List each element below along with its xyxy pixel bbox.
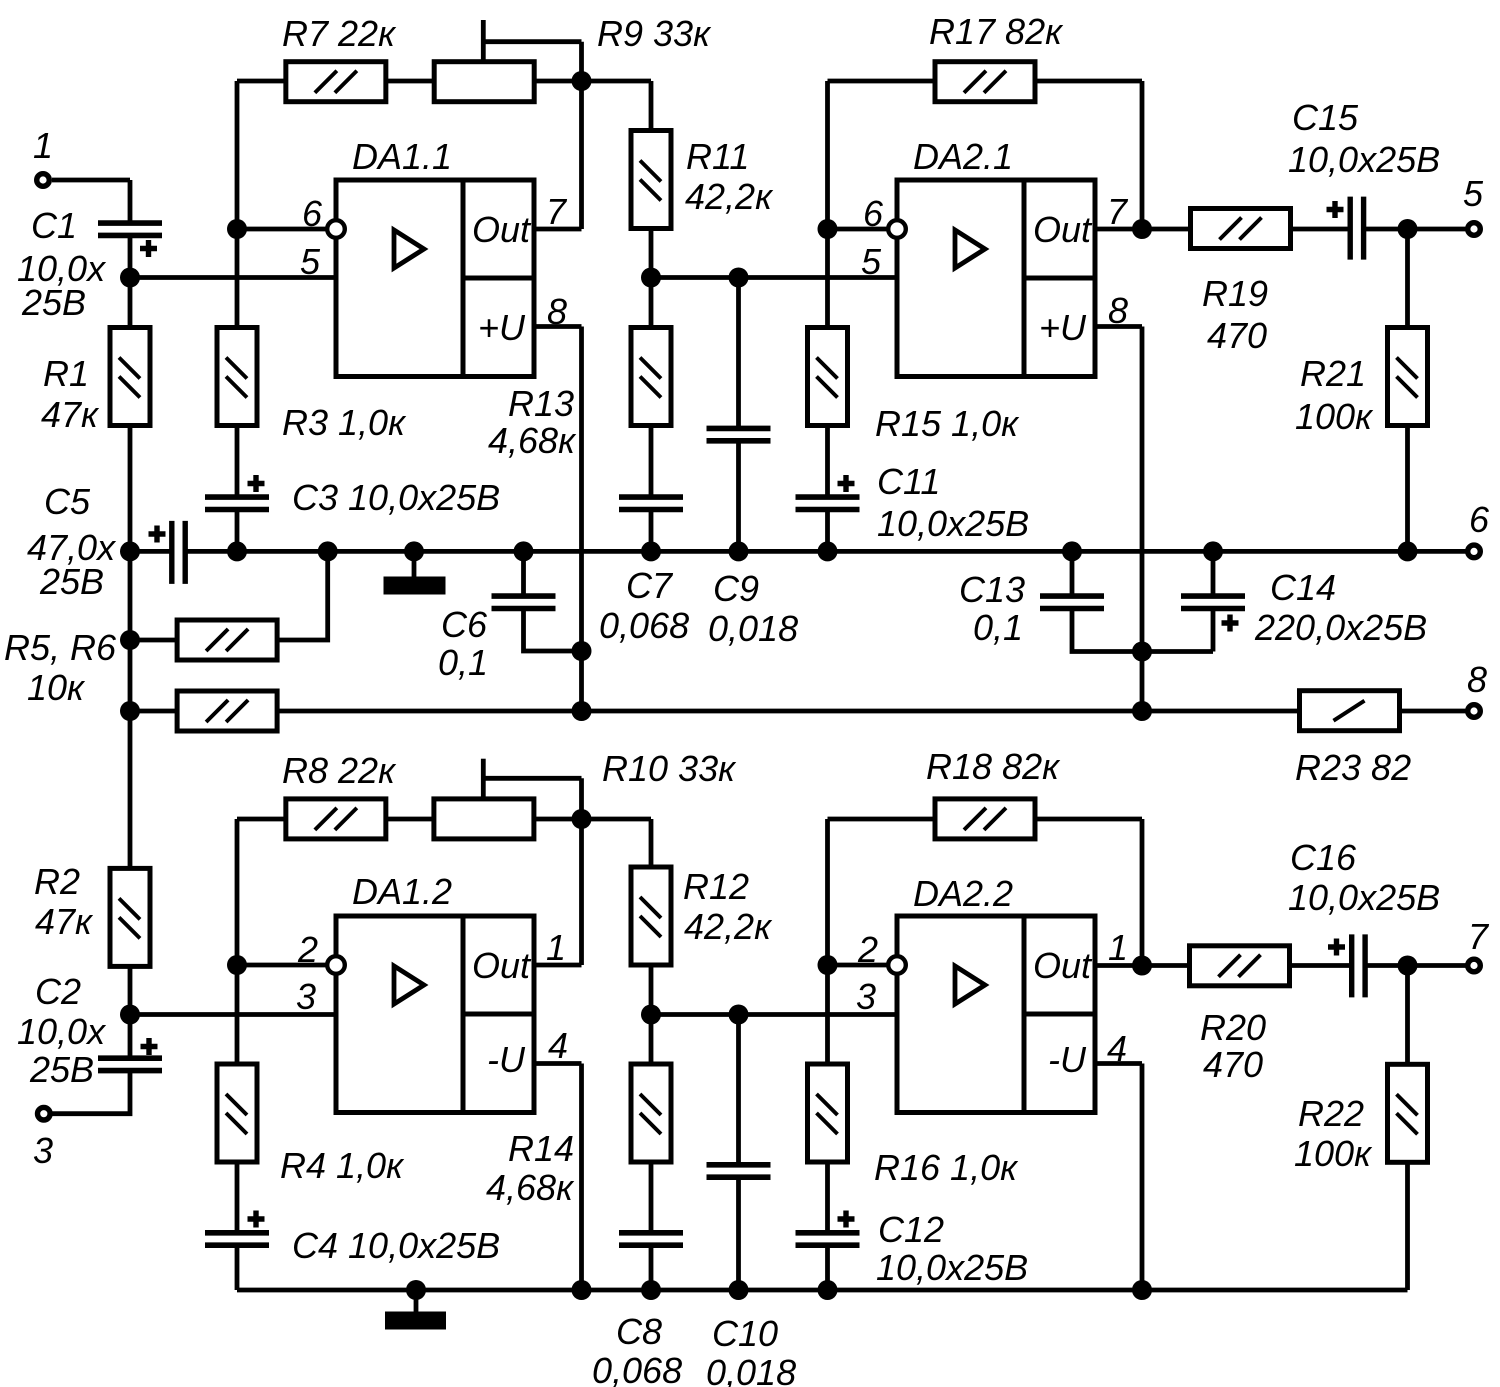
wire pin6 row DA2.1 (828, 227, 892, 232)
svg-text:C13: C13 (959, 569, 1025, 610)
resistor R15 (808, 328, 848, 426)
svg-text:C3 10,0x25В: C3 10,0x25В (292, 477, 500, 518)
op-amp DA1.2 pin2 inverting circle (327, 956, 345, 974)
svg-text:0,018: 0,018 (708, 608, 798, 649)
capacitor C1 (98, 223, 162, 235)
terminal 6 (1468, 545, 1481, 558)
op-amp DA1.1 pin6 inverting circle (327, 220, 345, 238)
svg-text:2: 2 (857, 929, 878, 970)
wire C14 top lead (1211, 551, 1216, 596)
svg-text:R22: R22 (1298, 1093, 1364, 1134)
capacitor C15 (1350, 197, 1363, 260)
svg-text:5: 5 (861, 241, 882, 282)
resistor R13 (631, 328, 671, 426)
node junction +U DA2.1 supply row (1132, 701, 1152, 721)
wire C2 bottom to terminal3 (52, 1070, 130, 1113)
wire +U column DA2.1 down to supply row (1140, 327, 1145, 712)
wire R17 left lead (828, 79, 935, 84)
wire R9 wiper stub (481, 20, 486, 62)
svg-text:470: 470 (1207, 315, 1267, 356)
wire R8 left lead (237, 817, 285, 822)
node junction R8/pin2 (227, 955, 247, 975)
node junction C13 bus (1062, 541, 1082, 561)
svg-text:42,2к: 42,2к (685, 176, 774, 217)
node junction C1/pin5 row (120, 268, 140, 288)
svg-text:3: 3 (296, 976, 316, 1017)
resistor R12 (631, 867, 671, 965)
wire pin3 row DA1.2 (130, 1012, 336, 1017)
op-amp DA2.1 (897, 180, 1095, 377)
resistor R3 (217, 328, 257, 426)
wire R7 left lead (237, 79, 285, 84)
op-amp DA1.1 (336, 180, 534, 377)
wire C8 bottom lead (649, 1245, 654, 1290)
node junction R18/pin2 DA2.2 (818, 955, 838, 975)
svg-text:220,0x25В: 220,0x25В (1254, 607, 1427, 648)
node junction R5 bus (318, 541, 338, 561)
resistor R23 (1300, 691, 1400, 731)
wire C9 bottom lead (736, 441, 741, 552)
wire pin4 lead DA1.2 (534, 1061, 582, 1066)
wire pin7 lead DA2.1 (1095, 227, 1190, 232)
node junction C6 bus (514, 541, 534, 561)
svg-text:DA1.2: DA1.2 (352, 871, 452, 912)
svg-text:C7: C7 (626, 565, 674, 606)
capacitor C11 plus (838, 475, 855, 492)
wire C11 bottom lead (825, 509, 830, 551)
svg-text:7: 7 (546, 191, 568, 232)
wire C10 bottom lead (736, 1177, 741, 1290)
wire pin8 lead DA1.1 (534, 324, 582, 329)
wire bottom ground bus (237, 1288, 1408, 1293)
wire pin5 row DA2.1 (651, 275, 897, 280)
svg-text:0,068: 0,068 (592, 1350, 682, 1387)
resistor R8 (286, 799, 386, 839)
svg-text:R15 1,0к: R15 1,0к (875, 403, 1020, 444)
capacitor C3 plus (248, 475, 265, 492)
svg-text:R17 82к: R17 82к (929, 11, 1064, 52)
node junction R9 output (572, 71, 592, 91)
svg-text:+U: +U (478, 307, 526, 348)
wire R5 left lead (130, 638, 176, 643)
svg-text:4,68к: 4,68к (488, 420, 577, 461)
op-amp DA2.2 (897, 916, 1095, 1113)
svg-text:R13: R13 (508, 383, 574, 424)
node junction C3 bus (227, 541, 247, 561)
capacitor C14 plus (1222, 615, 1239, 632)
wire R11-R13-C7 column (649, 230, 654, 498)
svg-text:R23 82: R23 82 (1295, 747, 1411, 788)
node junction R17/pin6 DA2.1 (818, 219, 838, 239)
capacitor C16 (1352, 934, 1365, 997)
resistor R22 (1388, 1064, 1428, 1162)
svg-text:C8: C8 (616, 1311, 662, 1352)
svg-text:R5, R6: R5, R6 (4, 627, 117, 668)
svg-text:47к: 47к (35, 901, 94, 942)
capacitor C6 (492, 596, 556, 608)
node junction +U DA1.1 supply row (572, 701, 592, 721)
svg-text:25В: 25В (21, 282, 86, 323)
capacitor C7 (619, 497, 683, 509)
svg-text:R3 1,0к: R3 1,0к (282, 402, 407, 443)
svg-text:0,1: 0,1 (438, 642, 488, 683)
svg-text:47к: 47к (41, 394, 100, 435)
wire supply row8 left (130, 709, 176, 714)
wire +U column DA1.1 down to supply row (579, 327, 584, 712)
ground bottom bar (385, 1312, 446, 1330)
svg-text:R18 82к: R18 82к (926, 746, 1061, 787)
capacitor C5 (172, 521, 185, 584)
svg-text:R7 22к: R7 22к (282, 13, 397, 54)
wire C13 top lead (1070, 551, 1075, 596)
capacitor C9 (707, 428, 771, 440)
node junction C10 pin3 row (729, 1005, 749, 1025)
wire bottom ground stub (414, 1290, 419, 1313)
svg-text:C12: C12 (878, 1209, 944, 1250)
resistor R20 (1190, 946, 1290, 986)
svg-text:C1: C1 (31, 205, 77, 246)
wire R5 right lead up to bus (278, 551, 328, 640)
wire C15 to terminal5 (1364, 227, 1466, 232)
resistor R5 (177, 620, 277, 660)
svg-text:R2: R2 (34, 861, 80, 902)
svg-text:10,0x25В: 10,0x25В (1288, 139, 1440, 180)
wire R20 to C16 (1291, 963, 1352, 968)
svg-text:7: 7 (1107, 191, 1129, 232)
svg-text:5: 5 (300, 241, 321, 282)
svg-text:DA1.1: DA1.1 (352, 136, 452, 177)
svg-text:R14: R14 (508, 1128, 574, 1169)
svg-text:470: 470 (1203, 1044, 1263, 1085)
node junction C8 bus (641, 1280, 661, 1300)
resistor R9 trimmer body (434, 62, 534, 102)
node junction C10 bus (729, 1280, 749, 1300)
svg-text:8: 8 (547, 291, 567, 332)
svg-text:Out: Out (1033, 945, 1093, 986)
node junction C14 bus (1203, 541, 1223, 561)
wire pin6 column DA2.1 with R15 C11 (825, 81, 830, 497)
wire R8-R10 link (387, 817, 433, 822)
svg-text:10,0x25В: 10,0x25В (876, 1247, 1028, 1288)
capacitor C11 (796, 497, 860, 509)
capacitor C16 plus (1328, 939, 1345, 956)
capacitor C12 (796, 1233, 860, 1245)
op-amp DA1.2 (336, 916, 534, 1113)
wire C10 top lead (736, 1015, 741, 1166)
wire C1 top lead (128, 180, 133, 223)
resistor R10 trimmer body (434, 799, 534, 839)
node junction C15/R21/terminal5 (1398, 219, 1418, 239)
node junction R5 left column (120, 630, 140, 650)
terminal 8 (1468, 705, 1481, 718)
svg-text:R10 33к: R10 33к (602, 748, 737, 789)
node junction C11 bus (818, 541, 838, 561)
node junction C2/pin3 row (120, 1005, 140, 1025)
svg-text:10,0x: 10,0x (17, 1011, 107, 1052)
wire R17 down to pin7 node (1140, 81, 1145, 229)
capacitor C12 plus (838, 1211, 855, 1228)
node junction R21 bus terminal6 (1398, 541, 1418, 561)
node junction C6 +U column (572, 641, 592, 661)
wire pin5 row DA1.1 (130, 275, 336, 280)
node junction R12/R14 pin3 (641, 1005, 661, 1025)
svg-text:DA2.1: DA2.1 (913, 136, 1013, 177)
svg-text:25В: 25В (29, 1049, 94, 1090)
wire pin7 lead DA1.1 (534, 227, 582, 232)
node junction R7/pin6 (227, 219, 247, 239)
wire R12-R14-C8 column (649, 966, 654, 1233)
node junction bottom ground stub (406, 1280, 426, 1300)
svg-text:4: 4 (548, 1025, 568, 1066)
svg-text:42,2к: 42,2к (684, 906, 773, 947)
wire pin6 row DA1.1 (237, 227, 330, 232)
svg-text:R4 1,0к: R4 1,0к (280, 1145, 405, 1186)
svg-text:1: 1 (33, 125, 53, 166)
capacitor C10 (707, 1165, 771, 1177)
wire R21 top column (1405, 229, 1410, 551)
svg-text:-U: -U (1048, 1039, 1087, 1080)
svg-text:C15: C15 (1292, 97, 1359, 138)
wire pin2 row DA1.2 (237, 963, 330, 968)
svg-text:+U: +U (1039, 307, 1087, 348)
svg-text:R8 22к: R8 22к (282, 750, 397, 791)
svg-text:C5: C5 (44, 481, 91, 522)
capacitor C2 plus (141, 1038, 158, 1055)
node junction C9 pin5 row (729, 268, 749, 288)
svg-text:R1: R1 (43, 353, 89, 394)
svg-text:R16 1,0к: R16 1,0к (874, 1147, 1019, 1188)
wire R18 right lead (1036, 817, 1142, 822)
wire pin2 row DA2.2 (828, 963, 892, 968)
resistor R4 (217, 1064, 257, 1162)
svg-text:0,1: 0,1 (973, 607, 1023, 648)
svg-text:5: 5 (1463, 173, 1484, 214)
wire R10 wiper stub (481, 759, 486, 799)
resistor R18 (935, 799, 1035, 839)
op-amp DA2.2 pin2 inverting circle (888, 956, 906, 974)
node junction C9 bus (729, 541, 749, 561)
wire R22 column to bottom bus (1405, 966, 1410, 1291)
svg-text:10,0x25В: 10,0x25В (877, 503, 1029, 544)
svg-text:6: 6 (863, 193, 884, 234)
wire C16 to terminal7 (1365, 963, 1466, 968)
svg-text:4: 4 (1107, 1028, 1127, 1069)
svg-text:25В: 25В (39, 561, 104, 602)
svg-text:10к: 10к (27, 667, 86, 708)
wire R10 wiper arm (483, 776, 581, 781)
wire R10 wiper down to pin1 node (579, 778, 584, 965)
svg-text:100к: 100к (1294, 1133, 1373, 1174)
wire top ground bus (130, 549, 1466, 554)
svg-text:7: 7 (1468, 916, 1490, 957)
svg-text:R12: R12 (683, 866, 749, 907)
capacitor C5 plus (149, 526, 166, 543)
svg-text:C11: C11 (877, 461, 940, 502)
svg-text:3: 3 (856, 976, 876, 1017)
svg-text:6: 6 (302, 193, 323, 234)
node junction C13/C14 supply column (1132, 642, 1152, 662)
wire pin1 lead DA2.2 (1095, 963, 1189, 968)
resistor R2 (110, 868, 150, 966)
wire pin1 lead DA1.2 (534, 963, 582, 968)
svg-text:C10: C10 (712, 1313, 778, 1354)
node junction -U DA2.2 bus (1132, 1280, 1152, 1300)
svg-text:2: 2 (297, 929, 318, 970)
svg-text:1: 1 (1108, 927, 1128, 968)
wire C7 bottom lead (649, 509, 654, 551)
resistor R19 (1191, 209, 1291, 249)
svg-text:8: 8 (1108, 290, 1128, 331)
resistor R21 (1388, 328, 1428, 426)
wire C13 C14 bottoms to supply column (1072, 608, 1213, 651)
node junction -U DA1.2 bus (572, 1280, 592, 1300)
svg-text:1: 1 (546, 927, 566, 968)
wire R19 to C15 (1292, 227, 1351, 232)
capacitor C14 (1181, 596, 1245, 608)
node junction pin7 DA2.1 (1132, 219, 1152, 239)
wire R8 left vertical with R4 C4 (235, 819, 240, 1233)
wire left column A (C1 to C2 through R1,R2) (128, 235, 133, 1058)
wire R11 top lead (649, 81, 654, 130)
node junction C7 bus (641, 541, 661, 561)
svg-text:10,0x25В: 10,0x25В (1288, 877, 1440, 918)
capacitor C1 plus (140, 240, 157, 257)
svg-text:0,018: 0,018 (706, 1352, 796, 1387)
terminal 5 (1468, 223, 1481, 236)
wire R18 down to pin1 node (1140, 819, 1145, 966)
terminal 3 (38, 1107, 51, 1120)
resistor R16 (808, 1064, 848, 1162)
wire -U column DA1.2 to bottom bus (579, 1064, 584, 1291)
op-amp DA2.1 pin6 inverting circle (888, 220, 906, 238)
resistor R6 (177, 691, 277, 731)
svg-text:R11: R11 (686, 136, 749, 177)
wire C14 bottom lead (1211, 608, 1216, 651)
svg-text:8: 8 (1467, 659, 1487, 700)
svg-text:-U: -U (487, 1039, 526, 1080)
resistor R11 (631, 131, 671, 229)
capacitor C4 plus (248, 1211, 265, 1228)
node junction R6 left column (120, 701, 140, 721)
svg-text:C9: C9 (713, 568, 759, 609)
node junction C12 bus (818, 1280, 838, 1300)
svg-text:Out: Out (472, 209, 532, 250)
svg-text:0,068: 0,068 (599, 605, 689, 646)
capacitor C13 (1040, 596, 1104, 608)
wire R9 wiper down to output node (579, 42, 584, 229)
capacitor C4 (205, 1233, 269, 1245)
svg-text:C6: C6 (441, 604, 488, 645)
svg-text:R19: R19 (1202, 273, 1268, 314)
svg-text:C14: C14 (1270, 567, 1336, 608)
svg-text:C2: C2 (35, 971, 81, 1012)
wire top ground stub (412, 551, 417, 578)
wire R9 wiper arm (483, 39, 581, 44)
capacitor C15 plus (1327, 201, 1344, 218)
capacitor C2 (98, 1058, 162, 1070)
capacitor C8 (619, 1233, 683, 1245)
wire pin3 row DA2.2 (651, 1012, 897, 1017)
node junction R10 output (572, 809, 592, 829)
svg-text:C4 10,0x25В: C4 10,0x25В (292, 1225, 500, 1266)
node junction C5 left (120, 541, 140, 561)
wire supply row8 main (278, 709, 1298, 714)
svg-text:R20: R20 (1200, 1007, 1266, 1048)
svg-text:6: 6 (1469, 499, 1490, 540)
svg-text:Out: Out (1033, 209, 1093, 250)
node junction pin1 DA2.2 (1132, 956, 1152, 976)
node junction R11/R13 pin5 (641, 268, 661, 288)
wire R18 left lead (828, 817, 935, 822)
resistor R7 (286, 62, 386, 102)
wire R12 top lead (649, 819, 654, 866)
wire R17 right lead (1036, 79, 1142, 84)
svg-text:3: 3 (33, 1130, 53, 1171)
wire C6 bottom to +U column (524, 608, 582, 651)
resistor R17 (935, 62, 1035, 102)
svg-text:C16: C16 (1290, 837, 1357, 878)
ground top bar (384, 577, 446, 595)
wire C12 bottom lead (825, 1245, 830, 1290)
wire C3 bottom lead (235, 509, 240, 551)
svg-text:DA2.2: DA2.2 (913, 873, 1013, 914)
node junction C16/R22/terminal7 (1398, 956, 1418, 976)
wire R9 right lead to R11 (535, 79, 651, 84)
svg-text:100к: 100к (1295, 396, 1374, 437)
node junction ground bus (404, 541, 424, 561)
wire C4 bottom lead (235, 1245, 240, 1290)
wire pin2 column DA2.2 with R16 C12 (825, 819, 830, 1233)
wire pin4 DA2.2 to bottom bus (1095, 1064, 1142, 1291)
resistor R1 (110, 328, 150, 426)
wire C6 top lead (521, 551, 526, 596)
svg-text:4,68к: 4,68к (486, 1167, 575, 1208)
wire R7-R9 link (387, 79, 433, 84)
svg-text:R9 33к: R9 33к (597, 13, 712, 54)
wire R23 to terminal8 (1401, 709, 1467, 714)
svg-text:R21: R21 (1300, 353, 1366, 394)
wire C9 top lead (736, 278, 741, 429)
terminal 1 (37, 174, 50, 187)
resistor R14 (631, 1064, 671, 1162)
wire R7 left vertical (235, 81, 240, 497)
wire R10 right lead to R12 (535, 817, 651, 822)
wire pin8 lead DA2.1 (1095, 324, 1142, 329)
capacitor C3 (205, 497, 269, 509)
terminal 7 (1468, 959, 1481, 972)
wire terminal1 lead (52, 178, 130, 183)
svg-text:Out: Out (472, 945, 532, 986)
